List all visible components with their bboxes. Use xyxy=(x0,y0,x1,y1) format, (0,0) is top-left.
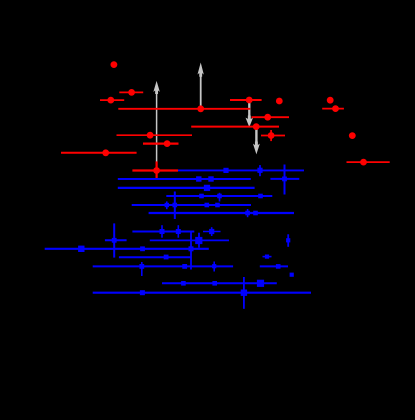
blue point B14c xyxy=(257,280,264,287)
red data point R1 xyxy=(111,61,118,68)
blue error bar B7 xyxy=(132,231,194,233)
blue point B11b xyxy=(263,255,272,259)
red data point R8 xyxy=(322,105,344,112)
blue point B4c xyxy=(258,194,263,199)
red data point R2 xyxy=(119,89,143,96)
blue point B7c xyxy=(203,227,221,236)
blue error bar B14 xyxy=(162,282,277,284)
blue error bar B3 xyxy=(118,187,255,189)
blue point B4a xyxy=(199,194,204,199)
blue point B12c xyxy=(212,262,216,272)
red data point R4 xyxy=(118,105,250,112)
blue point B5c xyxy=(205,203,210,208)
blue point B2c xyxy=(270,165,299,195)
blue point B6b xyxy=(253,211,258,216)
blue error bar B6 xyxy=(149,212,294,214)
blue point B1a xyxy=(223,168,228,173)
red data point R11 xyxy=(261,130,285,141)
blue point B5b xyxy=(173,192,178,220)
blue point B14a xyxy=(181,281,186,286)
red data point R13 xyxy=(143,140,179,147)
red data point R9 xyxy=(252,114,290,121)
red data point R5 xyxy=(230,97,262,104)
blue point B9b xyxy=(286,234,290,247)
blue point B7b xyxy=(176,225,181,238)
gray lower-limit arrow A2 xyxy=(198,64,203,108)
blue error bar B5 xyxy=(132,204,251,206)
red data point R15 xyxy=(132,161,178,178)
blue point B11a xyxy=(164,255,169,260)
blue point B10b xyxy=(140,246,145,251)
blue point B2b xyxy=(208,176,213,181)
red data point R14 xyxy=(61,149,137,156)
blue error bar B9 xyxy=(150,239,229,241)
blue point B8 xyxy=(105,223,127,257)
blue point B12b xyxy=(182,264,187,269)
red data point R16 xyxy=(349,132,356,139)
blue point B5a xyxy=(165,201,169,209)
blue point B14b xyxy=(212,281,217,286)
blue error bar B4 xyxy=(166,195,272,197)
blue point B2a xyxy=(196,176,201,181)
blue point B15a xyxy=(140,290,145,295)
gray upper-limit arrow A4 xyxy=(254,127,259,153)
red data point R7 xyxy=(327,97,334,104)
blue point B9a xyxy=(195,233,202,248)
blue error bar B1 xyxy=(178,169,304,171)
red data point R10 xyxy=(191,123,279,130)
blue point B15b xyxy=(241,277,247,309)
blue error bar B12 xyxy=(93,265,233,267)
blue error bar B11 xyxy=(119,256,191,258)
red data point R12 xyxy=(117,132,193,139)
blue point B6a xyxy=(245,209,250,217)
red data point R3 xyxy=(100,97,124,104)
gray lower-limit arrow A1 xyxy=(154,83,159,163)
blue point B13 xyxy=(290,273,294,277)
blue point B4b xyxy=(217,193,222,202)
blue error bar B10 xyxy=(45,248,209,250)
blue point B5d xyxy=(215,203,220,208)
blue error bar B15 xyxy=(93,292,311,294)
blue point B7a xyxy=(160,225,165,238)
blue error bar B2 xyxy=(118,178,251,180)
blue point B10a xyxy=(78,246,84,252)
blue error bar B12d xyxy=(260,264,288,269)
gray upper-limit arrow A3 xyxy=(246,101,252,126)
blue point B1b xyxy=(257,165,262,176)
red data point R6 xyxy=(276,98,283,105)
blue point B12a xyxy=(139,262,144,276)
blue point B10c xyxy=(189,232,194,270)
blue point B3a xyxy=(204,185,210,191)
red data point R17 xyxy=(347,159,390,166)
